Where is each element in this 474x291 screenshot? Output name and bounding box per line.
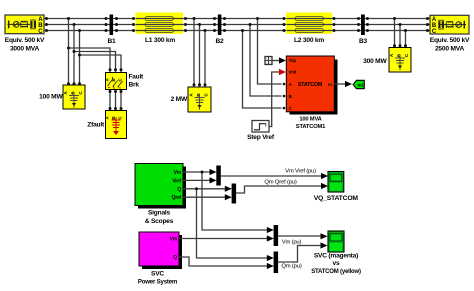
svg-text:Qref: Qref: [172, 195, 182, 201]
svg-text:Step Vref: Step Vref: [247, 134, 275, 141]
svg-text:& Scopes: & Scopes: [145, 218, 174, 225]
svg-text:Equiv. 500 kV: Equiv. 500 kV: [5, 37, 45, 44]
svg-text:Vm: Vm: [174, 170, 182, 176]
transmission line L1 300 km: [136, 13, 184, 34]
svg-text:100 MW: 100 MW: [39, 94, 63, 101]
svg-text:3000 MVA: 3000 MVA: [10, 46, 40, 53]
svg-text:Fault: Fault: [129, 74, 145, 81]
svg-text:Zfault: Zfault: [87, 122, 105, 129]
svg-text:Equiv. 500 kV: Equiv. 500 kV: [430, 37, 470, 44]
step block Step Vref: [252, 121, 269, 133]
wire Vm to mux1: [183, 171, 211, 173]
svg-text:Trip: Trip: [289, 58, 297, 63]
wire Vm branch to mux3: [202, 172, 268, 230]
breaker block Fault Brk: [105, 73, 127, 90]
svg-text:300 MW: 300 MW: [363, 58, 387, 65]
wire phase B bus: [44, 24, 430, 26]
svg-text:Q: Q: [177, 187, 181, 193]
goto tag m1: [353, 80, 364, 88]
svg-text:B1: B1: [107, 38, 116, 45]
bus B2: [218, 15, 222, 36]
mux1: [216, 166, 221, 186]
wire taps to 2 MW load: [194, 19, 205, 89]
junction dot Q branch: [195, 187, 198, 190]
svg-text:STATCOM1: STATCOM1: [296, 124, 326, 130]
svg-text:2 MW: 2 MW: [171, 96, 188, 103]
svg-text:SVC (magenta): SVC (magenta): [314, 253, 358, 260]
bus B1: [110, 15, 114, 36]
mux4: [274, 252, 279, 274]
source block Equiv. 500 kV 2500 MVA: [430, 15, 469, 35]
subsystem SVC Power System: [139, 232, 182, 269]
svg-text:100 MVA: 100 MVA: [299, 116, 322, 122]
wire taps to STATCOM A B C: [243, 19, 282, 109]
svg-text:Power System: Power System: [138, 278, 178, 285]
svg-text:VQ_STATCOM: VQ_STATCOM: [314, 195, 359, 202]
svg-text:Q: Q: [173, 255, 177, 261]
constant block (Trip source): [265, 57, 272, 65]
transmission line L2 300 km: [286, 13, 332, 34]
svg-text:A: A: [289, 82, 292, 87]
svg-text:Brk: Brk: [129, 82, 140, 89]
subsystem Signals & Scopes: [135, 164, 186, 209]
junction dots on buses: [45, 17, 429, 110]
svg-text:m1: m1: [357, 83, 364, 88]
svg-text:L2 300 km: L2 300 km: [294, 37, 324, 44]
wire mux1 to scope: [221, 175, 323, 177]
svg-text:Vm Vref (pu): Vm Vref (pu): [285, 169, 316, 175]
svg-text:2500 MVA: 2500 MVA: [435, 46, 465, 53]
wire mux3 to scope2: [278, 235, 322, 237]
wire mux2 to scope: [236, 186, 323, 193]
svg-text:B2: B2: [215, 38, 224, 45]
wire Vref to mux1: [183, 179, 211, 181]
svg-text:Signals: Signals: [148, 210, 171, 217]
wire taps to 300 MW load: [395, 19, 406, 49]
wire Q to mux2: [183, 188, 226, 190]
load block 100 MW: [63, 85, 85, 109]
svg-text:STATCOM (yellow): STATCOM (yellow): [311, 269, 361, 275]
wire Q branch to mux4: [197, 189, 269, 258]
wire Vref: [269, 72, 280, 127]
wire mux4 to scope2: [278, 246, 322, 263]
svg-text:Vref: Vref: [289, 70, 297, 75]
load block 300 MW: [389, 48, 411, 73]
svg-text:B: B: [289, 94, 292, 99]
svg-text:Qm (pu): Qm (pu): [281, 264, 301, 270]
svg-text:m: m: [328, 82, 332, 87]
svg-text:STATCOM: STATCOM: [298, 82, 323, 88]
wire taps to 100 MW load and fault breaker: [69, 19, 122, 111]
svg-text:SVC: SVC: [151, 271, 164, 278]
svg-text:B: B: [111, 116, 116, 119]
wire SVC Vm to mux3: [179, 238, 268, 240]
svg-text:Vref: Vref: [172, 178, 181, 184]
source block Equiv. 500 kV 3000 MVA: [5, 15, 44, 35]
load block 2 MW: [188, 87, 211, 112]
mux3: [274, 225, 279, 246]
impedance block Zfault: [105, 111, 127, 139]
svg-text:vs: vs: [333, 260, 340, 267]
svg-text:Qm Qref (pu): Qm Qref (pu): [264, 180, 297, 186]
svg-text:Vm: Vm: [170, 237, 178, 243]
STATCOM block 100 MVA: [283, 56, 338, 115]
mux2: [232, 184, 237, 204]
wire phase A bus: [44, 18, 430, 20]
wire phase C bus: [44, 30, 430, 32]
wire SVC Q to mux4: [179, 257, 268, 266]
svg-text:C: C: [289, 106, 292, 111]
bus B3: [361, 15, 365, 36]
scope SVC vs STATCOM: [328, 231, 344, 252]
wire trip: [272, 60, 280, 62]
svg-text:Vm (pu): Vm (pu): [282, 240, 302, 246]
svg-text:B3: B3: [359, 38, 368, 45]
scope VQ_STATCOM: [328, 172, 344, 193]
wire Qref to mux2: [183, 196, 226, 198]
wire m output: [334, 83, 346, 85]
svg-text:L1 300 km: L1 300 km: [145, 37, 175, 44]
junction dot Vm branch: [201, 171, 204, 174]
